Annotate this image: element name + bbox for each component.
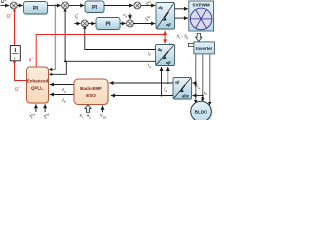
wire PI2 to J3	[104, 5, 133, 7]
svg-text:Inverter: Inverter	[196, 46, 212, 51]
svg-text:dq: dq	[158, 47, 162, 52]
wire v-beta-ref into QPLL bottom	[44, 104, 46, 112]
arrowhead phase a into BLDC	[194, 100, 197, 104]
Enhanced QPLL block	[27, 67, 50, 104]
summing junction J4	[127, 20, 134, 27]
wire J4 to dq/ab block	[134, 23, 156, 25]
svg-text:s: s	[14, 55, 16, 60]
svg-text:abc: abc	[182, 94, 190, 99]
arrowhead phase c into BLDC	[208, 102, 211, 106]
wire id* input	[74, 23, 80, 25]
wire inverter phase c	[209, 54, 211, 103]
wire inverter phase a	[195, 54, 197, 101]
node theta branch dot	[164, 33, 166, 35]
svg-text:ESO: ESO	[86, 93, 96, 98]
filter box 1/s	[10, 46, 20, 61]
svg-text:BLDC: BLDC	[195, 110, 208, 115]
node iq* tap dot	[54, 5, 56, 7]
wire ib tap into abc block	[193, 95, 203, 97]
summing junction J3	[134, 2, 141, 9]
wire B1 to SVPWM top	[175, 8, 188, 10]
Back-EMF ESO block	[74, 79, 109, 105]
wire PI1 to J2	[48, 5, 61, 7]
wire J2b to PI3	[88, 23, 95, 25]
transform block B2 alpha-beta to dq	[156, 45, 176, 67]
arrowhead phase b into BLDC	[201, 99, 204, 103]
svg-text:PI: PI	[105, 22, 111, 28]
wire e-beta-hat ESO to QPLL	[50, 94, 74, 96]
current direction tick on phase a	[194, 85, 197, 88]
wire VDC into ESO bottom	[102, 106, 104, 113]
wire id feedback to J2b	[85, 28, 156, 50]
svg-text:QPLL.: QPLL.	[31, 85, 44, 90]
wire V2 up to B2	[161, 67, 163, 96]
wire V1 up to B2	[167, 67, 169, 83]
wire i-alpha feedback to ESO	[110, 82, 174, 84]
wire iq feedback to J2	[65, 11, 155, 62]
theta-hat red line QPLL to B1 and B2	[36, 35, 165, 67]
summing junction J2b	[81, 20, 88, 27]
block arrow S1-S6 into ESO bottom	[85, 105, 92, 113]
transform block abc to alpha-beta	[173, 78, 192, 100]
PI controller PI1 (speed)	[24, 2, 49, 15]
wire e-alpha-hat ESO to QPLL	[50, 84, 74, 86]
node iq branch dot	[64, 60, 66, 62]
summing junction J2	[62, 2, 69, 9]
node V2 tap on i-beta	[161, 95, 163, 97]
Omega-hat red feedback QPLL to filter box	[15, 62, 27, 81]
svg-text:Back-EMF: Back-EMF	[80, 86, 102, 91]
VDC connector into inverter	[188, 43, 193, 47]
transform block B1 dq to alpha-beta	[156, 3, 175, 30]
summing junction J1	[10, 2, 17, 9]
current direction tick on phase b	[201, 97, 204, 100]
PI controller PI2 (q current)	[85, 1, 105, 13]
wire inverter phase b	[202, 54, 204, 100]
block arrow S1-S6 into inverter	[196, 33, 203, 41]
BLDC motor	[191, 101, 213, 123]
wire filter box to J1	[14, 11, 16, 46]
node V1 tap on i-alpha	[167, 82, 169, 84]
wire iq* gray tap into QPLL	[50, 6, 56, 70]
wire theta up into B1	[164, 31, 166, 35]
wire B1 to SVPWM bottom	[175, 17, 188, 19]
svg-text:PI: PI	[92, 5, 98, 11]
node ia tap	[195, 82, 197, 84]
inverter block	[194, 42, 215, 54]
SVPWM block	[189, 1, 214, 31]
svg-text:PI: PI	[33, 6, 39, 12]
wire J3 to dq/ab block	[141, 5, 155, 7]
wire theta down into B2	[164, 35, 166, 44]
wire v-alpha-ref into QPLL bottom	[35, 104, 37, 112]
PI controller PI3 (d current)	[96, 18, 121, 31]
wire iq branch into QPLL	[50, 61, 66, 74]
wire J1 to PI1	[17, 5, 22, 7]
node ib tap	[202, 95, 204, 97]
wire J2 to PI2	[69, 5, 85, 7]
wire ia tap into abc block	[193, 82, 196, 84]
svg-text:dq: dq	[159, 5, 163, 10]
wire PI3 to J4	[120, 23, 126, 25]
wire i-beta feedback to ESO	[111, 95, 173, 97]
wire ed into J4	[129, 14, 131, 20]
svg-text:SVPWM: SVPWM	[192, 3, 210, 8]
wire Omega* input	[1, 5, 10, 7]
svg-text:Enhanced: Enhanced	[27, 78, 49, 83]
